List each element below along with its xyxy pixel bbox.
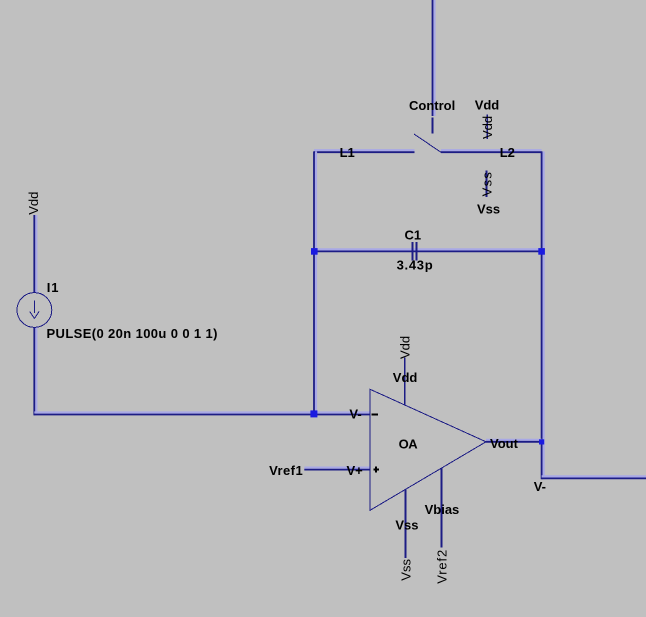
capacitor C1 plates [413, 242, 417, 261]
svg-text:PULSE(0 20n 100u 0 0 1 1): PULSE(0 20n 100u 0 0 1 1) [47, 326, 218, 341]
svg-text:Vdd: Vdd [398, 336, 413, 359]
svg-text:Vss: Vss [399, 559, 414, 581]
wire left vertical feedback segment [314, 151, 316, 415]
svg-text:Vref1: Vref1 [269, 463, 303, 478]
op-amp plus input mark [374, 467, 380, 473]
svg-text:Vss: Vss [477, 202, 500, 217]
svg-text:V-: V- [534, 479, 546, 494]
op-amp Vss pin stub [405, 489, 407, 558]
wire L1 net, horizontal top-left [314, 150, 415, 152]
svg-text:Vdd: Vdd [393, 370, 418, 385]
op-amp Vbias pin stub [441, 468, 443, 547]
svg-text:Control: Control [409, 98, 455, 113]
svg-text:Vref2: Vref2 [434, 549, 449, 584]
svg-text:Vss: Vss [395, 517, 418, 532]
junction node at C1 left [311, 248, 318, 255]
op-amp Vdd pin stub [404, 358, 406, 405]
junction node Vout [539, 439, 544, 444]
svg-text:3.43p: 3.43p [397, 258, 434, 273]
wire L2 net, horizontal top-right [441, 150, 542, 152]
svg-text:I1: I1 [47, 280, 60, 295]
svg-text:L1: L1 [340, 145, 355, 160]
wire I1 bottom, vertical down [34, 328, 36, 416]
svg-text:L2: L2 [500, 145, 515, 160]
svg-text:Vdd: Vdd [480, 116, 495, 139]
svg-text:V+: V+ [347, 463, 364, 478]
switch lever (open switch between L1 and L2) [414, 134, 441, 152]
junction node at C1 right [538, 248, 545, 255]
wire through capacitor C1, horizontal [314, 249, 542, 251]
svg-text:V-: V- [349, 406, 361, 421]
wire right vertical, Vout net [542, 151, 544, 479]
switch Vss pin stub [486, 171, 488, 198]
switch control pin stub [432, 118, 434, 134]
svg-text:Vss: Vss [479, 171, 494, 197]
wire Control net, vertical from top edge [433, 0, 435, 116]
svg-text:Vdd: Vdd [26, 192, 41, 215]
wire V- net, horizontal to right edge [542, 476, 646, 478]
svg-text:Vout: Vout [490, 436, 519, 451]
current source I1 circle [17, 293, 52, 328]
wire Vref1 to op-amp V+ input [304, 468, 370, 470]
svg-text:Vdd: Vdd [475, 97, 500, 112]
wire Vdd net to I1 top [34, 215, 36, 293]
wire op-amp output to Vout junction [486, 440, 542, 442]
current source I1 arrow [30, 301, 39, 319]
junction node at op-amp V- input [310, 410, 317, 417]
wire bottom horizontal to op-amp V- input [34, 413, 370, 415]
op-amp minus input mark [372, 413, 379, 415]
svg-text:C1: C1 [405, 228, 422, 243]
svg-text:Vbias: Vbias [425, 502, 460, 517]
switch Vdd pin stub [486, 115, 488, 140]
svg-text:OA: OA [399, 436, 419, 451]
op-amp OA body triangle [370, 389, 486, 510]
